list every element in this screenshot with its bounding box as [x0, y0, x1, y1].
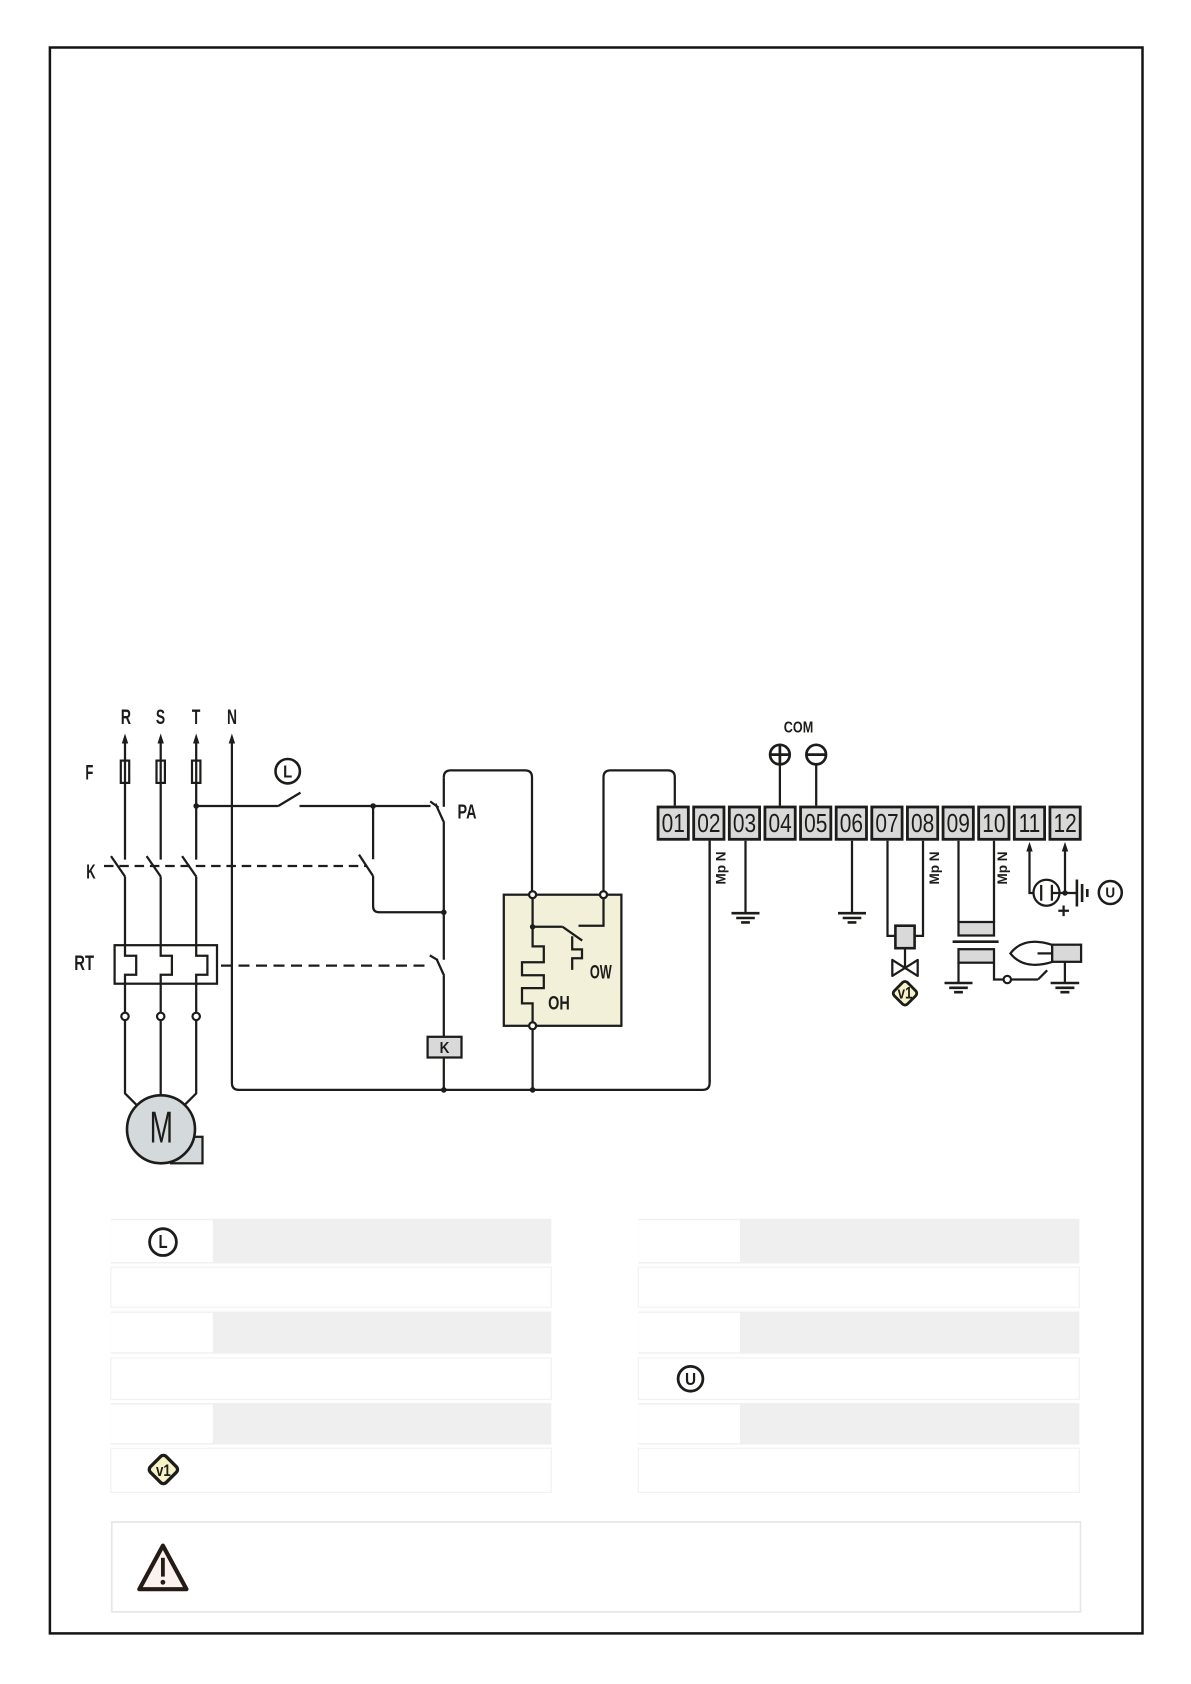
svg-text:L: L — [283, 762, 292, 781]
svg-text:K: K — [440, 1040, 450, 1057]
svg-text:F: F — [85, 760, 93, 784]
svg-text:v1: v1 — [156, 1462, 171, 1481]
svg-text:Mp N: Mp N — [927, 852, 942, 885]
svg-text:09: 09 — [947, 809, 970, 837]
svg-text:05: 05 — [804, 809, 827, 837]
svg-text:K: K — [86, 861, 96, 884]
svg-text:08: 08 — [911, 809, 934, 837]
svg-text:OW: OW — [590, 962, 612, 983]
svg-text:PA: PA — [458, 800, 477, 823]
svg-text:R: R — [121, 705, 131, 728]
svg-text:02: 02 — [697, 809, 720, 837]
svg-text:03: 03 — [733, 809, 756, 837]
svg-text:01: 01 — [662, 809, 685, 837]
svg-text:COM: COM — [784, 719, 813, 737]
svg-text:Mp N: Mp N — [714, 852, 729, 885]
svg-text:U: U — [685, 1370, 696, 1389]
svg-text:11: 11 — [1019, 809, 1041, 837]
svg-text:07: 07 — [875, 809, 898, 837]
svg-text:Mp N: Mp N — [995, 852, 1010, 885]
svg-text:04: 04 — [768, 809, 791, 837]
svg-text:N: N — [227, 705, 237, 729]
svg-text:v1: v1 — [898, 984, 913, 1003]
svg-text:10: 10 — [982, 809, 1005, 837]
svg-text:OH: OH — [548, 992, 570, 1013]
svg-text:RT: RT — [74, 950, 94, 974]
svg-text:S: S — [156, 705, 165, 729]
svg-text:L: L — [158, 1232, 167, 1253]
svg-text:U: U — [1105, 885, 1115, 902]
svg-text:12: 12 — [1053, 809, 1076, 837]
svg-text:M: M — [150, 1102, 173, 1152]
svg-text:T: T — [192, 705, 201, 729]
svg-text:06: 06 — [840, 809, 863, 837]
